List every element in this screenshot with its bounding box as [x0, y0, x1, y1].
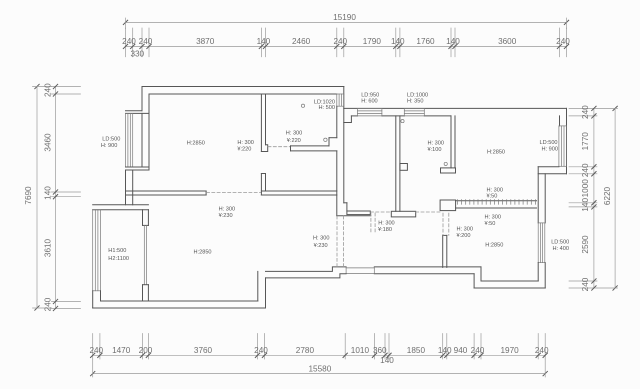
svg-text:¥:230: ¥:230 — [219, 213, 233, 219]
svg-text:240: 240 — [122, 37, 136, 46]
svg-text:¥:200: ¥:200 — [457, 233, 471, 239]
door leaf dashes kitchen — [370, 213, 372, 233]
svg-text:3610: 3610 — [44, 238, 53, 257]
wall: corridor south wall west segment — [344, 202, 347, 204]
wall: bottom-right corner — [537, 263, 539, 281]
hinge circle near bath east wall — [444, 162, 447, 165]
wall: bay top wall — [93, 204, 149, 206]
svg-text:1770: 1770 — [581, 132, 590, 151]
svg-text:H: 300: H: 300 — [378, 221, 394, 227]
svg-text:¥:50: ¥:50 — [485, 221, 496, 227]
svg-text:H: 900: H: 900 — [542, 147, 558, 153]
wall: bottom-right room east wall outer — [544, 174, 546, 223]
window LD:950 top wall — [358, 107, 382, 109]
tick partition right section — [456, 200, 537, 202]
svg-text:2590: 2590 — [581, 235, 590, 254]
kitchen door dashed — [371, 211, 392, 213]
flange at partition south end — [391, 211, 415, 217]
opening dashed in mid-left wall — [207, 192, 262, 194]
svg-text:H: 500: H: 500 — [319, 105, 335, 111]
svg-text:H:2850: H:2850 — [187, 141, 205, 147]
svg-text:¥:220: ¥:220 — [287, 138, 301, 144]
svg-text:¥:220: ¥:220 — [237, 147, 251, 153]
wall: top wall left section outer — [142, 86, 344, 88]
dashed opening between room1 and room2 — [268, 146, 291, 148]
wall: top wall right section outer — [344, 107, 567, 109]
svg-text:3760: 3760 — [194, 346, 213, 355]
hinge circle room2 — [301, 104, 304, 107]
wall: bottom-left bottom wall — [101, 300, 258, 302]
svg-text:200: 200 — [139, 346, 153, 355]
svg-text:LD:500: LD:500 — [551, 240, 569, 246]
svg-text:H1:500: H1:500 — [108, 248, 126, 254]
wall: left exterior wall below window — [125, 170, 127, 205]
svg-text:H: 300: H: 300 — [286, 130, 302, 136]
svg-text:1850: 1850 — [407, 346, 426, 355]
wall: bottom step right — [473, 274, 475, 288]
svg-text:140: 140 — [44, 186, 53, 200]
svg-text:H2:1100: H2:1100 — [108, 256, 129, 262]
svg-text:140: 140 — [257, 37, 271, 46]
wall: top wall left section inner — [149, 93, 337, 95]
svg-text:H:2850: H:2850 — [194, 250, 212, 256]
wall: bottom-right room west wall — [442, 235, 444, 267]
wall: kitchen west wall lower — [336, 151, 338, 216]
svg-text:240: 240 — [44, 83, 53, 97]
svg-text:140: 140 — [380, 356, 394, 365]
wall: mid-left horizontal wall solid part — [126, 190, 207, 192]
wall: bath east wall — [450, 116, 452, 168]
wall: interior wall lower segment — [260, 174, 262, 196]
svg-text:240: 240 — [581, 277, 590, 291]
svg-text:¥:180: ¥:180 — [378, 227, 392, 233]
wall: bay east wall upper — [142, 210, 144, 226]
svg-text:240: 240 — [139, 37, 153, 46]
svg-text:H:2850: H:2850 — [487, 149, 505, 155]
right dimension chain — [593, 108, 595, 288]
left overall dimension 7690 — [36, 87, 38, 309]
left dimension chain — [55, 87, 57, 309]
wall: top wall right section inner segments — [351, 115, 357, 117]
svg-text:240: 240 — [556, 37, 570, 46]
hinge circle at kitchen door recess — [324, 138, 327, 141]
svg-text:H: 300: H: 300 — [485, 214, 501, 220]
svg-text:1970: 1970 — [500, 346, 519, 355]
svg-text:240: 240 — [581, 105, 590, 119]
svg-text:H: 300: H: 300 — [219, 207, 235, 213]
inner leaf of left wall beside window — [141, 113, 143, 167]
svg-text:15190: 15190 — [333, 13, 356, 22]
bottom dimension chain — [93, 354, 546, 356]
svg-text:H: 300: H: 300 — [237, 140, 253, 146]
wall: bottom-right room bottom wall — [481, 280, 538, 282]
jamb foot of interior wall — [261, 145, 267, 152]
svg-text:¥:50: ¥:50 — [487, 194, 498, 200]
svg-text:15580: 15580 — [309, 365, 332, 374]
wall: bottom middle wall east part — [374, 266, 481, 268]
svg-text:140: 140 — [581, 198, 590, 212]
jamb block NW corner bottom-right room — [440, 200, 456, 211]
window LD:500 bottom-right room east wall — [537, 223, 539, 263]
wall: interior wall between top-left rooms upper — [260, 94, 262, 152]
door dashed bottom-right room — [442, 213, 444, 235]
window LD:500 right wall upper — [558, 126, 560, 166]
svg-text:1760: 1760 — [416, 37, 435, 46]
svg-text:3870: 3870 — [196, 37, 215, 46]
svg-text:H: 600: H: 600 — [361, 98, 377, 104]
wall: bottom middle wall west part with jog — [266, 267, 347, 272]
wall: right exterior wall upper — [566, 108, 568, 173]
svg-text:7690: 7690 — [24, 186, 33, 205]
top overall dimension 15190 — [126, 21, 567, 23]
svg-text:330: 330 — [130, 49, 144, 58]
svg-text:240: 240 — [581, 163, 590, 177]
svg-text:3460: 3460 — [44, 133, 53, 152]
top dimension chain — [126, 45, 567, 47]
top chain extension at ends — [125, 18, 127, 29]
svg-text:1790: 1790 — [363, 37, 382, 46]
wall: mid-left horizontal wall right part — [261, 190, 336, 192]
wall: bottom step left — [257, 271, 259, 301]
svg-text:¥:100: ¥:100 — [428, 147, 442, 153]
hinge circle bath — [401, 120, 404, 123]
dashed lines living room east opening — [336, 216, 338, 267]
svg-text:1000: 1000 — [581, 179, 590, 198]
svg-text:360: 360 — [373, 346, 387, 355]
svg-text:H: 300: H: 300 — [313, 235, 329, 241]
bath door dashed — [416, 211, 440, 213]
window LD:1000 top wall — [404, 107, 424, 109]
svg-text:140: 140 — [446, 37, 460, 46]
svg-text:140: 140 — [391, 37, 405, 46]
svg-text:240: 240 — [44, 297, 53, 311]
svg-text:¥:230: ¥:230 — [314, 243, 328, 249]
svg-text:140: 140 — [438, 346, 452, 355]
recess step in kitchen west wall — [329, 137, 337, 139]
svg-text:H: 300: H: 300 — [428, 140, 444, 146]
svg-text:940: 940 — [454, 346, 468, 355]
svg-text:240: 240 — [89, 346, 103, 355]
wall: room2 bottom wall — [291, 145, 330, 147]
svg-text:H: 350: H: 350 — [407, 98, 423, 104]
svg-text:1010: 1010 — [351, 346, 370, 355]
svg-text:H: 400: H: 400 — [553, 246, 569, 252]
svg-text:3600: 3600 — [498, 37, 517, 46]
wall: bay east wall lower — [142, 285, 144, 301]
svg-text:LD:500: LD:500 — [540, 140, 558, 146]
svg-text:6220: 6220 — [603, 186, 612, 205]
svg-text:240: 240 — [254, 346, 268, 355]
window LD:500 left wall upper — [125, 113, 127, 167]
svg-text:240: 240 — [535, 346, 549, 355]
svg-text:H: 300: H: 300 — [487, 187, 503, 193]
wall: bay bottom-left corner — [92, 291, 94, 308]
svg-text:2460: 2460 — [292, 37, 311, 46]
bottom overall dimension 15580 — [93, 373, 546, 375]
wall: top-left corner jog — [141, 87, 143, 111]
svg-text:H: 300: H: 300 — [457, 227, 473, 233]
wall: right step wall — [538, 166, 559, 168]
wall: east jog wall top-left section — [343, 87, 345, 203]
wall: kitchen west wall upper — [336, 106, 338, 138]
wall: kitchen-bath partition — [395, 116, 397, 211]
svg-text:240: 240 — [333, 37, 347, 46]
pier step kitchen NW corner — [344, 116, 352, 123]
window LD:1020 in east jog wall — [336, 94, 338, 106]
stub wall in bath — [400, 164, 408, 171]
svg-text:LD:500: LD:500 — [102, 136, 120, 142]
window/rail bay west side — [92, 210, 94, 291]
svg-text:H: 900: H: 900 — [101, 143, 117, 149]
jamb at bath east wall bottom — [441, 168, 456, 173]
svg-text:H:2850: H:2850 — [485, 243, 503, 249]
svg-text:1470: 1470 — [112, 346, 131, 355]
svg-text:2780: 2780 — [296, 346, 315, 355]
right overall dimension 6220 — [614, 108, 616, 288]
balcony opening thin lines — [346, 267, 374, 269]
rail bay east side — [143, 225, 145, 284]
svg-text:240: 240 — [471, 346, 485, 355]
